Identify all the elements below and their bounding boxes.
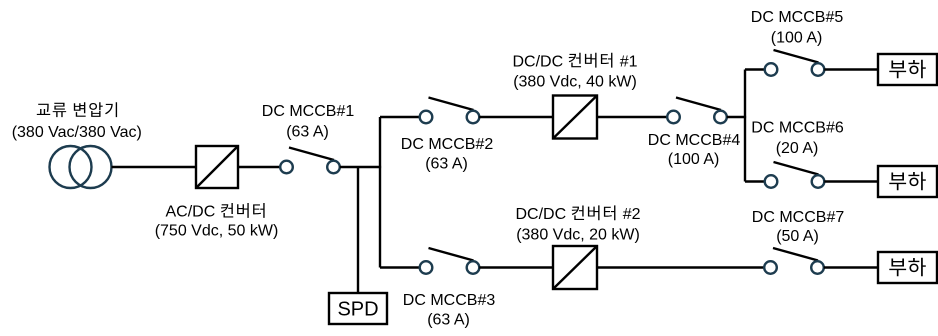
box SPD <box>329 293 387 324</box>
svg-text:(100 A): (100 A) <box>668 151 720 168</box>
svg-text:AC/DC: AC/DC <box>166 204 216 221</box>
wire transformer to AC/DC converter <box>112 166 197 168</box>
wire converter #2 to MCCB#7 <box>597 266 764 268</box>
svg-text:DC MCCB#4: DC MCCB#4 <box>648 132 741 149</box>
label DC MCCB#5 line1 <box>751 9 844 26</box>
label AC/DC converter line2 <box>155 222 279 239</box>
box load 2 (부하) <box>878 166 937 197</box>
label DC MCCB#1 line1 <box>262 103 355 120</box>
wire MCCB#1 to bus junction <box>340 166 381 168</box>
svg-text:(20 A): (20 A) <box>776 140 819 157</box>
breaker DC MCCB#4 <box>667 98 727 124</box>
svg-text:DC MCCB#5: DC MCCB#5 <box>751 9 844 26</box>
label transformer line2 <box>12 124 142 141</box>
label DC MCCB#7 line1 <box>752 209 845 226</box>
wire MCCB#5 to load 1 <box>824 68 878 70</box>
label DC MCCB#6 line2 <box>776 140 819 157</box>
svg-text:SPD: SPD <box>337 299 378 321</box>
svg-text:DC/DC: DC/DC <box>516 206 567 223</box>
svg-text:(750 Vdc, 50 kW): (750 Vdc, 50 kW) <box>155 222 279 239</box>
svg-text:(380 Vac/380 Vac): (380 Vac/380 Vac) <box>12 124 142 141</box>
svg-text:DC MCCB#2: DC MCCB#2 <box>401 136 494 153</box>
svg-text:(63 A): (63 A) <box>427 311 470 328</box>
box load 3 (부하) <box>878 252 937 283</box>
breaker DC MCCB#1 <box>280 148 340 174</box>
wire split bus <box>744 70 746 182</box>
breaker DC MCCB#3 <box>420 248 480 274</box>
svg-text:DC MCCB#7: DC MCCB#7 <box>752 209 845 226</box>
label DC MCCB#5 line2 <box>771 29 823 46</box>
converter box DC/DC converter #2 U3 <box>553 246 597 289</box>
converter box DC/DC converter #1 U2 <box>553 96 597 139</box>
label DC MCCB#6 line1 <box>751 119 844 136</box>
label DC MCCB#2 line2 <box>425 155 468 172</box>
label DC MCCB#4 line1 <box>648 132 741 149</box>
label DC MCCB#3 line2 <box>427 311 470 328</box>
text load 3 (부하) label <box>889 258 926 277</box>
wire split to MCCB#6 <box>745 180 765 182</box>
svg-text:DC MCCB#6: DC MCCB#6 <box>751 119 844 136</box>
svg-text:#1: #1 <box>620 53 638 70</box>
label transformer line1 <box>37 102 117 117</box>
wire MCCB#2 to DC/DC converter #1 <box>479 116 553 118</box>
wire MCCB#6 to load 2 <box>824 180 878 182</box>
svg-text:(380 Vdc, 40 kW): (380 Vdc, 40 kW) <box>513 73 637 90</box>
label DC MCCB#7 line2 <box>776 228 819 245</box>
svg-text:(380 Vdc, 20 kW): (380 Vdc, 20 kW) <box>516 226 640 243</box>
transformer T1 (two overlapping circles) <box>50 146 112 188</box>
label DC/DC converter #1 line1 <box>513 53 638 71</box>
svg-text:(63 A): (63 A) <box>425 155 468 172</box>
label DC/DC converter #2 line1 <box>516 205 641 223</box>
text load 2 (부하) label <box>889 172 926 191</box>
label DC MCCB#3 line1 <box>403 292 496 309</box>
label DC MCCB#1 line2 <box>286 123 329 140</box>
breaker DC MCCB#7 <box>764 248 824 274</box>
box load 1 (부하) <box>878 54 937 85</box>
svg-text:DC/DC: DC/DC <box>513 53 564 70</box>
wire bus to MCCB#2 <box>380 116 420 118</box>
svg-text:#2: #2 <box>623 206 641 223</box>
wire converter to MCCB#1 <box>238 166 280 168</box>
svg-text:DC MCCB#3: DC MCCB#3 <box>403 292 496 309</box>
breaker DC MCCB#6 <box>765 162 825 188</box>
converter box AC/DC converter U1 <box>196 146 238 188</box>
text load 1 (부하) label <box>889 60 926 79</box>
label DC/DC converter #1 line2 <box>513 73 637 90</box>
wire MCCB#4 to split <box>727 116 746 118</box>
wire bus to MCCB#3 <box>380 266 420 268</box>
wire SPD stub <box>357 167 359 293</box>
wire MCCB#7 to load 3 <box>824 266 878 268</box>
svg-text:(100 A): (100 A) <box>771 29 823 46</box>
svg-text:DC MCCB#1: DC MCCB#1 <box>262 103 355 120</box>
label DC MCCB#4 line2 <box>668 151 720 168</box>
svg-text:(50 A): (50 A) <box>776 228 819 245</box>
label DC/DC converter #2 line2 <box>516 226 640 243</box>
wire converter #1 to MCCB#4 <box>597 116 667 118</box>
svg-text:(63 A): (63 A) <box>286 123 329 140</box>
wire split to MCCB#5 <box>745 68 765 70</box>
breaker DC MCCB#2 <box>420 98 480 124</box>
label DC MCCB#2 line1 <box>401 136 494 153</box>
breaker DC MCCB#5 <box>765 50 825 76</box>
label AC/DC converter line1 <box>166 203 265 221</box>
wire vertical bus <box>379 117 381 268</box>
wire MCCB#3 to DC/DC converter #2 <box>479 266 553 268</box>
